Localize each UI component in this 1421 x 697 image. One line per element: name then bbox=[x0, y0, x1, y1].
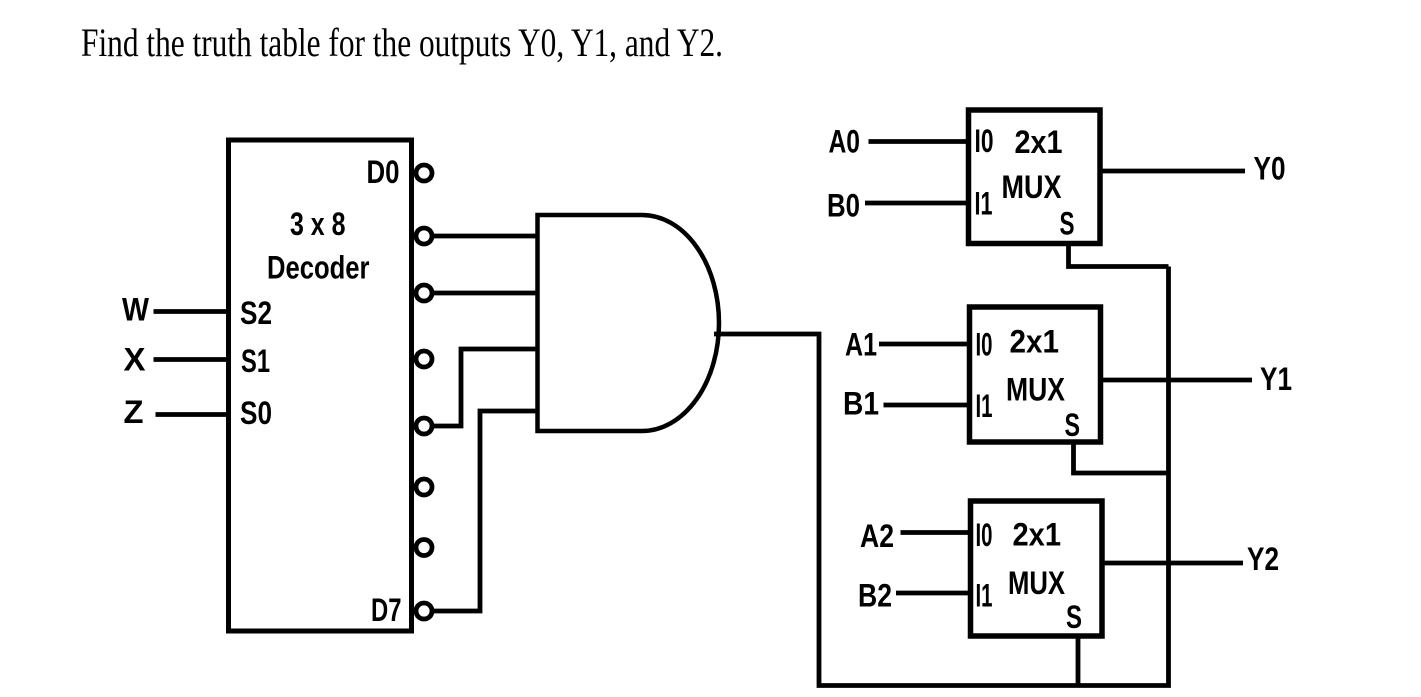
wire B2 to U4 I1 bbox=[896, 591, 970, 596]
svg-text:Y1: Y1 bbox=[1260, 361, 1292, 397]
wire U3 S to trunk bbox=[1074, 442, 1169, 473]
bubble D6 bbox=[416, 540, 432, 556]
svg-text:I0: I0 bbox=[976, 327, 993, 363]
wire D1 to AND input 1 bbox=[434, 234, 537, 239]
svg-text:A2: A2 bbox=[860, 518, 894, 554]
wire U2 output Y0 bbox=[1100, 169, 1245, 174]
wire U2 S to trunk bbox=[1069, 244, 1169, 267]
svg-text:2x1: 2x1 bbox=[1015, 124, 1063, 160]
wire D7 to AND input 4 bbox=[434, 411, 537, 611]
wire U4 S to bottom run bbox=[1076, 636, 1081, 686]
svg-text:B2: B2 bbox=[858, 578, 892, 614]
and gate G1 bbox=[538, 215, 720, 431]
bubble D7 bbox=[416, 603, 432, 619]
svg-text:Y2: Y2 bbox=[1247, 541, 1279, 577]
mux U3 box bbox=[970, 307, 1101, 442]
svg-text:S: S bbox=[1065, 407, 1081, 443]
svg-text:A1: A1 bbox=[845, 327, 877, 363]
svg-text:3 x 8: 3 x 8 bbox=[290, 206, 346, 242]
mux U4 box bbox=[971, 501, 1103, 636]
svg-text:I1: I1 bbox=[975, 186, 993, 222]
svg-text:S1: S1 bbox=[241, 343, 270, 379]
svg-text:2x1: 2x1 bbox=[1013, 517, 1062, 553]
svg-text:S2: S2 bbox=[240, 295, 272, 331]
wire B1 to U3 I1 bbox=[884, 403, 970, 408]
svg-text:MUX: MUX bbox=[1002, 169, 1063, 205]
bubble D4 bbox=[416, 418, 432, 434]
mux U2 box bbox=[969, 110, 1101, 244]
svg-text:2x1: 2x1 bbox=[1010, 324, 1060, 360]
svg-text:B0: B0 bbox=[827, 188, 860, 224]
svg-text:S: S bbox=[1066, 599, 1082, 635]
svg-text:I0: I0 bbox=[976, 517, 993, 553]
wire U3 output Y1 bbox=[1101, 378, 1252, 383]
bubble D5 bbox=[416, 479, 432, 495]
wire X to S1 bbox=[154, 357, 229, 362]
svg-text:MUX: MUX bbox=[1008, 565, 1066, 601]
wire AND output to select trunk bbox=[714, 267, 1169, 686]
bubble D2 bbox=[416, 285, 432, 301]
wire D2 to AND input 2 bbox=[434, 291, 537, 296]
wire B0 to U2 I1 bbox=[865, 201, 968, 206]
svg-text:S: S bbox=[1060, 206, 1075, 242]
bubble D3 bbox=[416, 351, 432, 367]
svg-text:X: X bbox=[124, 342, 147, 378]
svg-text:D0: D0 bbox=[367, 154, 400, 190]
svg-text:I1: I1 bbox=[976, 388, 993, 424]
wire A0 to U2 I0 bbox=[869, 139, 969, 144]
wire A1 to U3 I0 bbox=[879, 342, 969, 347]
svg-text:I1: I1 bbox=[976, 578, 993, 614]
svg-text:S0: S0 bbox=[240, 395, 272, 431]
decoder U1 box bbox=[229, 140, 412, 631]
svg-text:I0: I0 bbox=[975, 123, 994, 159]
svg-text:A0: A0 bbox=[829, 124, 861, 160]
svg-text:W: W bbox=[122, 292, 150, 328]
wire Z to S0 bbox=[156, 412, 229, 417]
wire D4 to AND input 3 bbox=[434, 349, 537, 426]
svg-text:Decoder: Decoder bbox=[267, 250, 370, 286]
svg-text:B1: B1 bbox=[843, 386, 879, 422]
bubble D1 bbox=[416, 228, 432, 244]
svg-text:Y0: Y0 bbox=[1254, 151, 1286, 187]
bubble D0 bbox=[416, 165, 432, 181]
wire W to S2 bbox=[154, 309, 229, 314]
svg-text:Z: Z bbox=[124, 394, 144, 430]
wire U4 output Y2 bbox=[1103, 561, 1244, 566]
svg-text:D7: D7 bbox=[371, 592, 402, 628]
svg-text:MUX: MUX bbox=[1006, 372, 1066, 408]
svg-text:Find the truth table for the o: Find the truth table for the outputs Y0,… bbox=[81, 20, 723, 65]
wire A2 to U4 I0 bbox=[901, 530, 971, 535]
